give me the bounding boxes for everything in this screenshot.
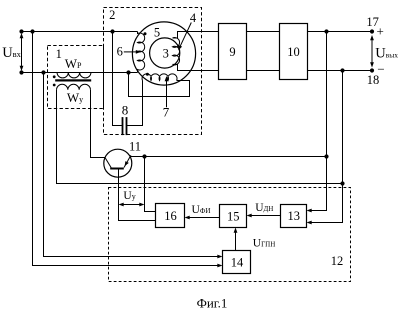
node junction collector wire and drop to block 16 xyxy=(142,154,146,158)
arrow head into block 13 upper input xyxy=(307,209,312,213)
svg-text:11: 11 xyxy=(129,139,141,153)
wire brush top lead to block 9 xyxy=(173,32,219,39)
wire feedback vertical 2 from terminal 18 rail to block 13 lower input xyxy=(309,71,343,223)
svg-text:UДН: UДН xyxy=(255,202,273,214)
arrow Uвых double-headed xyxy=(371,39,373,65)
node terminal 18 xyxy=(370,68,374,72)
block 13 xyxy=(281,205,307,228)
svg-text:14: 14 xyxy=(231,255,244,269)
capacitor 8 right plate xyxy=(126,117,128,135)
transistor 11 collector lead xyxy=(105,158,112,169)
svg-text:5: 5 xyxy=(154,25,160,39)
wire transistor right lead to feedback vertical 1 xyxy=(130,156,326,158)
wire from bottom rail down to block 14 upper input xyxy=(44,73,221,257)
transistor 11 (PNP) body circle xyxy=(104,149,132,177)
arrow pointer label 6 to winding xyxy=(124,51,136,53)
node junction bottom rail winding 7 return xyxy=(126,70,130,74)
winding 6 (left stator winding) xyxy=(138,32,145,73)
arrow head into block 14 upper input xyxy=(217,255,222,259)
svg-text:1: 1 xyxy=(56,47,62,61)
svg-text:8: 8 xyxy=(122,103,129,118)
wire block 13 to block 15 with arrow xyxy=(249,215,281,217)
transformer T1 winding Wу (control winding) xyxy=(57,84,91,89)
dashed box 2 (electromachine amplifier unit) xyxy=(104,8,202,135)
svg-text:WР: WР xyxy=(65,56,82,71)
node junction collector wire and feedback vertical 1 xyxy=(324,154,328,158)
node junction top rail to feedback vertical 1 xyxy=(324,29,328,33)
wire block 9 to block 10 top xyxy=(247,31,280,33)
dashed box 1 (transformer unit) xyxy=(48,46,104,109)
svg-text:6: 6 xyxy=(117,45,123,59)
arrow pointer label 7 to winding xyxy=(166,80,168,107)
wire top input rail xyxy=(22,31,138,33)
wire from node 11 down into block 16 upper input xyxy=(145,157,156,212)
svg-text:Uвых: Uвых xyxy=(375,46,398,62)
wire bottom input rail xyxy=(22,72,138,74)
node input top terminal xyxy=(19,29,23,33)
arrow Uвх double-headed xyxy=(21,37,23,68)
node junction bottom rail feedback tap xyxy=(41,70,45,74)
wire Wу left terminal down and feedback line to node on vertical from terminal 18 xyxy=(57,90,343,184)
node junction bottom rail to feedback vertical 2 xyxy=(340,68,344,72)
svg-text:Uвх: Uвх xyxy=(2,45,21,61)
wire winding 7 right terminal loop to bottom rail junction xyxy=(129,73,190,97)
svg-text:+: + xyxy=(377,24,384,39)
arrow pointer label 4 to rotor coil xyxy=(180,23,192,48)
node polarity dot Wу xyxy=(53,84,56,87)
svg-text:15: 15 xyxy=(227,209,240,223)
wire winding 7 left terminal down to capacitor right plate xyxy=(127,81,143,126)
node input bottom terminal xyxy=(19,70,23,74)
transistor 11 base bar xyxy=(110,168,124,170)
wire block 15 to block 16 with arrow xyxy=(187,217,220,219)
wire block 10 to terminal 17 xyxy=(308,31,373,33)
svg-text:13: 13 xyxy=(288,209,301,223)
node junction top rail capacitor tap xyxy=(110,29,114,33)
wire block 14 to block 15 with arrow xyxy=(235,230,237,251)
node polarity dot WP xyxy=(53,75,56,78)
svg-text:2: 2 xyxy=(109,8,115,22)
svg-text:UГПН: UГПН xyxy=(253,238,275,250)
dashed box 12 (control unit) xyxy=(109,188,351,282)
block 16 xyxy=(156,204,185,228)
rotor coil 4 (right of inner circle) xyxy=(173,38,180,65)
wire Wу right terminal down to transistor left lead xyxy=(91,90,106,158)
wire block 9 to block 10 bottom xyxy=(247,70,280,72)
wire capacitor left lead up to top rail xyxy=(113,32,123,126)
svg-text:UФИ: UФИ xyxy=(192,204,211,216)
block 14 xyxy=(223,251,251,274)
svg-text:10: 10 xyxy=(287,45,300,59)
wire block 10 to terminal 18 xyxy=(308,70,373,72)
node polarity dot winding 7 left xyxy=(146,73,149,76)
node polarity dot winding 6 top xyxy=(144,32,147,35)
arrow head into block 13 lower input xyxy=(307,221,312,225)
winding 7 (bottom stator winding) xyxy=(142,74,177,81)
block 15 xyxy=(220,205,247,228)
transformer T1 core xyxy=(55,79,91,81)
wire feedback vertical 1 from terminal 17 rail to block 13 upper input xyxy=(309,32,327,211)
transistor 11 emitter lead with arrow xyxy=(124,155,131,167)
arrow Uу double-headed xyxy=(122,204,141,206)
arrow head into block 14 lower input xyxy=(217,264,222,268)
node junction feedback 2 and Wу wire xyxy=(340,181,344,185)
svg-text:12: 12 xyxy=(331,254,344,268)
svg-text:Фиг.1: Фиг.1 xyxy=(197,296,228,311)
wire transistor base down into block 16 lower input xyxy=(119,169,156,221)
block 10 xyxy=(280,24,308,80)
machine amplifier rotor 3 (inner circle) xyxy=(150,38,180,68)
svg-text:16: 16 xyxy=(164,209,177,223)
machine amplifier stator (outer circle) xyxy=(132,22,195,85)
transformer T1 winding WP (primary, scallops under bottom rail) xyxy=(57,73,91,78)
svg-text:−: − xyxy=(377,62,384,77)
svg-text:9: 9 xyxy=(229,45,235,59)
node junction top rail feedback tap xyxy=(30,29,34,33)
wire from top rail down to block 14 lower input xyxy=(33,32,221,266)
svg-text:Wу: Wу xyxy=(67,90,83,105)
node terminal 17 xyxy=(370,29,374,33)
capacitor 8 left plate xyxy=(122,117,124,135)
wire brush bottom lead to block 9 xyxy=(173,64,219,70)
svg-text:3: 3 xyxy=(163,47,169,61)
block 9 xyxy=(219,24,247,80)
svg-text:Uу: Uу xyxy=(123,190,135,202)
